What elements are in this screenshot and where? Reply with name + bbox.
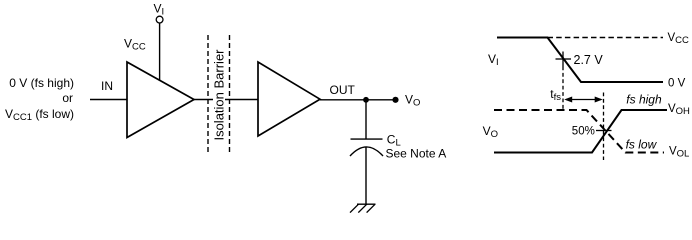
buffer U1 (input side) [127,62,194,138]
waveform VI (solid) [497,38,663,83]
dashed guide line (2.7 V crossing) [562,67,564,110]
waveform VO fs-low case (solid, rises) [494,110,667,153]
junction node (OUT / CL) [363,97,369,103]
svg-text:or: or [62,91,73,105]
svg-text:IN: IN [101,79,113,93]
wire: U1 output to isolation barrier [194,99,213,101]
crossing mark 2.7 V (+) [556,52,572,67]
svg-text:fs high: fs high [626,93,662,107]
svg-text:0 V (fs high): 0 V (fs high) [9,76,74,90]
svg-text:0 V: 0 V [668,78,686,90]
svg-text:VOH: VOH [668,103,690,117]
svg-text:Isolation Barrier: Isolation Barrier [212,49,227,141]
svg-text:See Note A: See Note A [386,146,447,160]
svg-text:VCC: VCC [668,32,690,46]
wire: junction down to capacitor CL [365,100,367,139]
wire: isolation barrier to buffer U2 [225,99,258,101]
terminal VI (open circle) [156,16,163,23]
level line VCC (dashed) [548,37,664,39]
wire: capacitor to ground [365,148,367,205]
ground [350,204,376,212]
isolation barrier (dashed lines) [208,35,230,154]
svg-text:2.7 V: 2.7 V [574,53,604,67]
waveform VO fs-high case (dashed, falls) [494,110,664,153]
svg-text:OUT: OUT [330,83,356,97]
wire: OUT to VO terminal [320,99,396,101]
svg-text:VOL: VOL [669,146,689,160]
node label: 0 V (fs high) or VCC1 (fs low) [5,76,74,123]
buffer U2 (output side) [258,62,320,136]
svg-text:fs low: fs low [626,138,658,152]
svg-text:50%: 50% [572,125,595,137]
dashed guide line (50% crossing) [603,93,605,161]
capacitor CL [350,139,383,156]
terminal VO (filled dot) [392,97,398,103]
dimension arrow tfs (double headed) [564,97,603,103]
wire: VI to buffer U1 [159,23,161,81]
wire: IN input [90,99,127,101]
crossing mark 50% (+) [596,130,612,132]
